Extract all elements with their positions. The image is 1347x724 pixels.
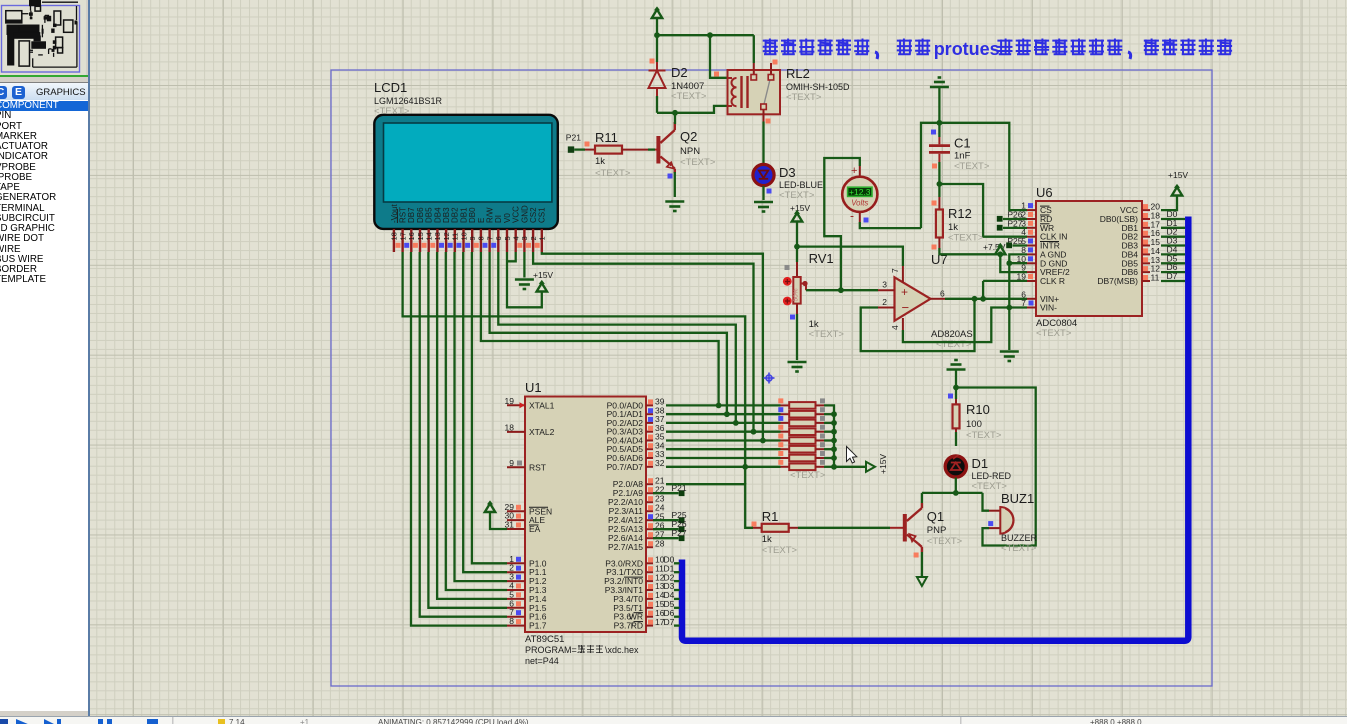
transistor Q2 NPN xyxy=(655,122,675,173)
pin 7 VIN- of U6 xyxy=(1027,307,1036,309)
pin 21 P2.0/A8 of U1 xyxy=(646,483,653,485)
svg-text:D1: D1 xyxy=(972,456,989,471)
svg-text:<TEXT>: <TEXT> xyxy=(762,545,798,556)
junction P0.4/CS1 drop xyxy=(760,438,766,444)
svg-text:13: 13 xyxy=(433,232,442,240)
junction P0.1/RW drop xyxy=(724,411,730,417)
svg-text:DB5: DB5 xyxy=(425,207,434,223)
ground below U6 xyxy=(1000,352,1019,362)
marker voltmeter minus xyxy=(864,218,869,223)
junction CLK R on output net xyxy=(980,296,986,302)
pin 38 P0.1/AD1 of U1 xyxy=(646,413,653,415)
wire Q2 emitter to ground xyxy=(674,172,676,197)
wire pack element 2 to common xyxy=(824,413,834,415)
svg-text:<TEXT>: <TEXT> xyxy=(790,470,826,481)
svg-text:12: 12 xyxy=(442,232,451,240)
wire U6 DB0(LSB) to data bus D0 xyxy=(1161,218,1185,220)
pin 3 P1.2 of U1 xyxy=(507,580,525,582)
pause button icon xyxy=(98,719,112,724)
pin 8 P1.7 of U1 xyxy=(507,625,525,627)
svg-text:D2: D2 xyxy=(671,65,688,80)
pane divider xyxy=(88,0,90,717)
junction R12 top node xyxy=(937,181,943,187)
wire down to Q1 collector xyxy=(921,493,923,503)
wire LCD DI to P0.2 xyxy=(498,252,736,423)
pin 3 WR of U6 xyxy=(1027,227,1036,229)
svg-text:R11: R11 xyxy=(595,130,618,145)
svg-text:\xdc.hex: \xdc.hex xyxy=(605,645,639,655)
wire pack element 3 to common xyxy=(824,422,834,424)
svg-text:VCC: VCC xyxy=(512,206,521,223)
wire U1 P0.2 row to resistor pack xyxy=(666,422,781,424)
svg-text:19: 19 xyxy=(505,396,515,406)
pin 34 P0.5/AD5 of U1 xyxy=(646,448,653,450)
svg-text:PNP: PNP xyxy=(927,525,947,536)
svg-text:<TEXT>: <TEXT> xyxy=(936,339,972,350)
LCD LCD1 LGM12641BS1R xyxy=(374,115,558,229)
ground below RV1 xyxy=(788,362,807,372)
svg-text:+1: +1 xyxy=(300,718,310,724)
pin 14 DB4 of U6 xyxy=(1142,253,1150,255)
pin 25 P2.4/A12 of U1 xyxy=(646,519,653,521)
pin 37 P0.2/AD2 of U1 xyxy=(646,422,653,424)
junction Q2 collector node xyxy=(672,110,678,116)
LED D1 LED-RED xyxy=(945,456,966,477)
terminal dot P26 xyxy=(997,216,1003,222)
marker buzzer xyxy=(988,521,993,526)
pin 32 P0.7/AD7 of U1 xyxy=(646,466,653,468)
wire supply to op-amp pin 7 xyxy=(797,247,903,266)
marker relay coil xyxy=(714,72,719,77)
buzzer BUZ1 xyxy=(989,507,1014,534)
power +15V arrow top xyxy=(652,6,662,18)
svg-text:D7: D7 xyxy=(664,617,675,627)
wire Q1 collector node xyxy=(922,492,983,494)
pin 13 P3.3/INT1 of U1 xyxy=(646,589,653,591)
pin 17 DB1 of U6 xyxy=(1142,227,1150,229)
marker RV1 top xyxy=(785,265,790,270)
svg-text:100: 100 xyxy=(966,419,982,430)
wire LCD DB3 to U1 P1.3 xyxy=(446,252,507,590)
power +15V arrow LCD xyxy=(537,280,547,292)
terminal dot P27 xyxy=(997,225,1003,231)
svg-text:<TEXT>: <TEXT> xyxy=(966,430,1002,441)
svg-text:6: 6 xyxy=(940,289,945,299)
pin 12 DB6 of U6 xyxy=(1142,271,1150,273)
svg-text:U1: U1 xyxy=(525,380,542,395)
svg-text:7: 7 xyxy=(485,236,494,240)
junction P0.2/E drop xyxy=(733,420,739,426)
LED D3 LED-BLUE xyxy=(753,164,774,185)
wire U1 P3.1/TXD to bus D1 xyxy=(674,571,680,573)
wire C1 node to U6 CS pin 1 xyxy=(939,123,1027,210)
pin 6 VIN+ of U6 xyxy=(1027,298,1036,300)
pin 28 P2.7/A15 of U1 xyxy=(646,546,653,548)
pin 19 XTAL1 of U1 xyxy=(507,404,525,406)
wire U1 P3.7/RD to bus D7 xyxy=(674,624,680,626)
wire U1 P3.5/T1 to bus D5 xyxy=(674,607,680,609)
svg-text:<TEXT>: <TEXT> xyxy=(595,168,631,179)
wire U1 P0.1 row to resistor pack xyxy=(666,413,781,415)
svg-text:+15V: +15V xyxy=(533,270,553,280)
wire U6 CLK R xyxy=(983,280,1027,282)
svg-text:RL2: RL2 xyxy=(786,66,810,81)
svg-text:LCD1: LCD1 xyxy=(374,80,407,95)
power arrow down below Q1 xyxy=(917,573,927,586)
wire R1 to Q1 base xyxy=(798,527,890,529)
wire P25 to U6 INTR xyxy=(1012,244,1027,246)
svg-text:<TEXT>: <TEXT> xyxy=(786,92,822,103)
wire U1 P0.4 row to resistor pack xyxy=(666,439,781,441)
resistor pack element 2 xyxy=(781,413,790,415)
junction D1/Q1/buzzer node xyxy=(953,490,959,496)
svg-text:C1: C1 xyxy=(954,136,971,151)
pin 39 P0.0/AD0 of U1 xyxy=(646,404,653,406)
pin 11 DB7(MSB) of U6 xyxy=(1142,280,1150,282)
pin 10 D GND of U6 xyxy=(1027,262,1036,264)
wire LCD DB4 to U1 P1.4 xyxy=(437,252,507,599)
marker R12 top xyxy=(932,201,937,206)
marker C1 top xyxy=(931,130,936,135)
wire voltmeter + to RV1 wiper node xyxy=(824,158,860,290)
marker Q2 emitter xyxy=(668,174,673,179)
ground above C1 (inverted) xyxy=(930,78,949,88)
wire U1 P3.4/T0 to bus D4 xyxy=(674,598,680,600)
svg-text:15: 15 xyxy=(416,232,425,240)
wire +15V arrow to D2 cathode xyxy=(656,18,658,62)
svg-text:<TEXT>: <TEXT> xyxy=(671,91,707,102)
svg-text:DB7: DB7 xyxy=(407,207,416,223)
wire RV1 wiper to op-amp pin 3 xyxy=(806,289,878,291)
wire resistor pack commons to +15V xyxy=(824,405,866,466)
wire LCD GND to ground xyxy=(523,252,525,278)
wire R12 node to U6 CLK IN xyxy=(939,184,1027,237)
marker Q1 emitter xyxy=(914,553,919,558)
pin 4 P1.3 of U1 xyxy=(507,589,525,591)
wire P26 to U6 RD xyxy=(1003,218,1027,220)
wire U1 P0.3 row to resistor pack xyxy=(666,431,781,433)
pin 9 VREF/2 of U6 xyxy=(1027,271,1036,273)
svg-text:17: 17 xyxy=(398,232,407,240)
annotation text (Chinese note) xyxy=(763,39,778,55)
pin 2 P1.1 of U1 xyxy=(507,571,525,573)
svg-text:P2.7/A15: P2.7/A15 xyxy=(608,542,643,552)
svg-text:net=P44: net=P44 xyxy=(525,656,559,666)
pin 12 P3.2/INT0 of U1 xyxy=(646,580,653,582)
wire supply rail to relay xyxy=(657,34,754,36)
svg-text:LED-BLUE: LED-BLUE xyxy=(779,180,823,190)
wire LCD RST to P0.7 xyxy=(403,252,746,467)
pin 36 P0.3/AD3 of U1 xyxy=(646,431,653,433)
svg-text:DI: DI xyxy=(494,215,503,223)
graphics header with C and E buttons xyxy=(0,82,88,101)
svg-text:1k: 1k xyxy=(948,222,958,233)
pin 15 P3.5/T1 of U1 xyxy=(646,607,653,609)
svg-text:1: 1 xyxy=(538,236,547,240)
wire U1 P0.7 row to resistor pack xyxy=(666,466,781,468)
resistor pack element 8 xyxy=(781,466,790,468)
resistor R1 1k xyxy=(752,527,762,529)
step button icon xyxy=(44,719,61,724)
svg-text:D3: D3 xyxy=(779,165,796,180)
green separator line xyxy=(0,75,88,77)
wire U6 DB1 to data bus D1 xyxy=(1161,227,1185,229)
wire VREF node to U6 VREF/2 xyxy=(1000,254,1027,272)
wire LCD E to P0.0 xyxy=(481,252,719,405)
wire relay pole to D3 xyxy=(762,122,764,167)
pin 9 RST of U1 xyxy=(507,466,525,468)
wire LCD DB0 to U1 P1.0 xyxy=(472,252,507,563)
svg-text:+15V: +15V xyxy=(878,454,888,474)
svg-text:R/W: R/W xyxy=(486,207,495,223)
svg-text:GND: GND xyxy=(520,205,529,223)
svg-text:-Vout: -Vout xyxy=(390,204,399,223)
svg-text:+: + xyxy=(901,285,908,299)
pin 20 VCC of U6 xyxy=(1142,209,1150,211)
pin 31 EA of U1 xyxy=(507,528,525,530)
wire pack element 4 to common xyxy=(824,431,834,433)
ground below LCD xyxy=(515,280,534,290)
wire pack element 7 to common xyxy=(824,457,834,459)
wire R12 bottom to VREF node xyxy=(939,248,1000,254)
svg-text:P1.7: P1.7 xyxy=(529,621,547,631)
pin 17 P3.7/RD of U1 xyxy=(646,625,653,627)
potentiometer RV1 1k xyxy=(783,262,808,314)
svg-text:+888.0 +888.0: +888.0 +888.0 xyxy=(1090,718,1142,724)
resistor R11 1k xyxy=(585,149,595,151)
svg-text:VIN-: VIN- xyxy=(1040,303,1057,313)
wire to U6 D GND xyxy=(1009,262,1027,264)
marker R11 left xyxy=(585,142,590,147)
junction wiper node xyxy=(838,287,844,293)
pin 22 P2.1/A9 of U1 xyxy=(646,492,653,494)
wire U1 P0.0 row to resistor pack xyxy=(666,404,781,406)
svg-text:32: 32 xyxy=(655,458,665,468)
svg-text:4: 4 xyxy=(890,325,900,330)
wire R10 node to buzzer pin 2 xyxy=(956,388,1036,546)
junction VREF node xyxy=(997,251,1003,257)
wire LCD VCC jog xyxy=(507,252,516,261)
wire LCD DB1 to U1 P1.1 xyxy=(463,252,507,572)
svg-text:R1: R1 xyxy=(762,509,779,524)
svg-text:Volts: Volts xyxy=(851,199,868,208)
svg-text:<TEXT>: <TEXT> xyxy=(779,190,815,201)
junction D GND branch xyxy=(1006,260,1012,266)
wire LCD CS2 to P0.3 xyxy=(533,252,753,432)
junction relay coil branch xyxy=(707,32,713,38)
pin 14 P3.4/T0 of U1 xyxy=(646,598,653,600)
pin 2 RD of U6 xyxy=(1027,218,1036,220)
marker R10 top xyxy=(948,394,953,399)
svg-text:AT89C51: AT89C51 xyxy=(525,634,564,645)
wire feedback op-amp output to pin 2 xyxy=(861,299,975,351)
pin 15 DB3 of U6 xyxy=(1142,245,1150,247)
wire voltmeter - to C1 left leg xyxy=(860,222,921,228)
power arrow at U1 EA xyxy=(485,500,495,512)
resistor pack element 1 xyxy=(781,404,790,406)
play button icon xyxy=(16,719,29,724)
pin 26 P2.5/A13 of U1 xyxy=(646,528,653,530)
sidebar panel xyxy=(0,0,88,717)
svg-text:8: 8 xyxy=(477,236,486,240)
junction P0.7/RST drop xyxy=(742,464,748,470)
junction P0.3/CS2 drop xyxy=(751,429,757,435)
ground above R10 (inverted) xyxy=(947,360,966,370)
wire U1 P3.2/INT0 to bus D2 xyxy=(674,580,680,582)
svg-text:+12.3: +12.3 xyxy=(849,187,871,197)
marker C1 bottom xyxy=(932,164,937,169)
svg-text:6: 6 xyxy=(494,236,503,240)
capacitor C1 1nF xyxy=(929,137,950,162)
op-amp U7 AD820AS xyxy=(878,266,945,330)
svg-text:Q2: Q2 xyxy=(680,129,697,144)
svg-text:<TEXT>: <TEXT> xyxy=(374,106,410,117)
wire U1 P3.3/INT1 to bus D3 xyxy=(674,589,680,591)
status bar (mostly cut off) xyxy=(0,716,1347,724)
svg-text:2: 2 xyxy=(529,236,538,240)
thumbnail drawing xyxy=(6,0,78,67)
resistor pack element 5 xyxy=(781,440,790,442)
marker U6 VIN- xyxy=(1029,301,1034,306)
svg-text:+15V: +15V xyxy=(790,203,810,213)
svg-text:+: + xyxy=(851,165,857,177)
wire LCD DB2 to U1 P1.2 xyxy=(455,252,508,581)
wire to relay switch common pin xyxy=(753,35,755,63)
svg-text:<TEXT>: <TEXT> xyxy=(680,157,716,168)
resistor pack element 3 xyxy=(781,422,790,424)
pin 5 INTR of U6 xyxy=(1027,245,1036,247)
junction R10 top node xyxy=(953,385,959,391)
wire ground to C1 top xyxy=(938,87,940,137)
wire power arrow to EA xyxy=(490,512,507,529)
marker R1 left xyxy=(752,522,757,527)
junction P0.0/DI drop xyxy=(716,403,722,409)
marker relay NC pin xyxy=(773,60,778,65)
svg-text:DB7(MSB): DB7(MSB) xyxy=(1097,276,1138,286)
svg-text:P27: P27 xyxy=(672,528,687,538)
svg-text:11: 11 xyxy=(1151,273,1160,283)
origin marker crosshair xyxy=(764,373,775,384)
wire CLK R to output node xyxy=(982,281,984,299)
pin 1 P1.0 of U1 xyxy=(507,562,525,564)
wire LCD DB7 to U1 P1.7 xyxy=(411,252,507,626)
marker D2 cathode xyxy=(650,59,655,64)
wire U1 P3.0/RXD to bus D0 xyxy=(674,562,680,564)
wire op-amp output to U6 VIN+ xyxy=(945,298,1027,300)
svg-text:P0.7/AD7: P0.7/AD7 xyxy=(607,462,644,472)
svg-text:<TEXT>: <TEXT> xyxy=(1036,328,1072,339)
marker R12 bottom xyxy=(932,245,937,250)
svg-text:PROGRAM=..\: PROGRAM=..\ xyxy=(525,645,585,655)
wire Q1 emitter down xyxy=(921,552,923,577)
pin 7 P1.6 of U1 xyxy=(507,616,525,618)
svg-text:9: 9 xyxy=(509,458,514,468)
svg-text:10: 10 xyxy=(459,232,468,240)
svg-text:−: − xyxy=(902,300,910,315)
terminal dot P25 xyxy=(1006,242,1012,248)
wire P21 to R11 xyxy=(574,148,585,150)
svg-text:18: 18 xyxy=(390,232,399,240)
svg-text:-: - xyxy=(850,209,854,223)
wire pack element 8 to common xyxy=(824,466,834,468)
wire pack element 5 to common xyxy=(824,439,834,441)
diode D2 1N4007 xyxy=(649,62,666,97)
wire U6 A GND down to ground xyxy=(1009,254,1027,350)
svg-text:ANIMATING: 0.857142999 (CPU lo: ANIMATING: 0.857142999 (CPU load 4%) xyxy=(378,718,529,724)
svg-text:RST: RST xyxy=(399,207,408,223)
wire op-amp pin4 to U6 VIN- xyxy=(903,308,1027,343)
schematic sheet border xyxy=(331,70,1212,686)
svg-text:7.14...: 7.14... xyxy=(229,718,251,724)
wire U6 DB5 to data bus D5 xyxy=(1161,262,1185,264)
terminal P27 at U1 xyxy=(653,537,679,539)
wire ground to R10 xyxy=(955,370,957,400)
pin 33 P0.6/AD6 of U1 xyxy=(646,457,653,459)
svg-text:14: 14 xyxy=(425,232,434,240)
svg-text:<TEXT>: <TEXT> xyxy=(954,161,990,172)
wire U6 DB7(MSB) to data bus D7 xyxy=(1161,280,1185,282)
svg-text:R12: R12 xyxy=(948,206,972,221)
pin 4 CLK IN of U6 xyxy=(1027,236,1036,238)
wire LCD DB5 to U1 P1.5 xyxy=(428,252,507,608)
svg-text:5: 5 xyxy=(503,236,512,240)
svg-text:16: 16 xyxy=(407,232,416,240)
svg-text:1nF: 1nF xyxy=(954,151,971,162)
pin 13 DB5 of U6 xyxy=(1142,262,1150,264)
junction node D2/relay supply xyxy=(654,32,660,38)
wire U1 P3.6/WR to bus D6 xyxy=(674,616,680,618)
junction VIN- ground branch xyxy=(1006,305,1012,311)
svg-text:LED-RED: LED-RED xyxy=(972,471,1012,481)
svg-text:CS1: CS1 xyxy=(538,207,547,223)
svg-text:<TEXT>: <TEXT> xyxy=(927,536,963,547)
wire LCD R/W to P0.1 xyxy=(490,252,727,414)
svg-text:2: 2 xyxy=(882,297,887,307)
pin 6 P1.5 of U1 xyxy=(507,607,525,609)
svg-text:BUZ1: BUZ1 xyxy=(1001,491,1034,506)
svg-text:LGM12641BS1R: LGM12641BS1R xyxy=(374,96,443,106)
svg-text:DB3: DB3 xyxy=(442,207,451,223)
wire +15V to U6 VCC xyxy=(1161,196,1177,211)
wire D3 to ground xyxy=(762,186,764,200)
svg-text:7: 7 xyxy=(890,268,900,273)
pin 16 DB2 of U6 xyxy=(1142,236,1150,238)
wire R10 to D1 xyxy=(955,432,957,446)
junction C1 top node xyxy=(937,120,943,126)
terminal P26 at U1 xyxy=(653,528,679,530)
resistor R10 100 xyxy=(955,399,957,404)
wire RV1 bottom to ground xyxy=(796,314,798,360)
pin 18 DB0(LSB) of U6 xyxy=(1142,218,1150,220)
svg-text:<TEXT>: <TEXT> xyxy=(809,329,845,340)
svg-text:Q1: Q1 xyxy=(927,509,944,524)
svg-text:9: 9 xyxy=(468,236,477,240)
wire pack element 6 to common xyxy=(824,448,834,450)
wire C1 node to voltmeter minus leg xyxy=(921,123,939,228)
marker relay pole xyxy=(766,119,771,124)
svg-text:CS2: CS2 xyxy=(529,207,538,223)
svg-text:18: 18 xyxy=(505,422,515,432)
pin 35 P0.4/AD4 of U1 xyxy=(646,440,653,442)
ground below Q2 xyxy=(665,202,684,212)
marker RV1 bottom xyxy=(790,315,795,320)
svg-text:NPN: NPN xyxy=(680,146,700,157)
terminal P21 input xyxy=(568,146,574,152)
svg-text:BUZZER: BUZZER xyxy=(1001,533,1038,543)
svg-text:<TEXT>: <TEXT> xyxy=(1001,543,1037,554)
wire D2 anode down xyxy=(656,96,658,113)
terminal P21 at U1 xyxy=(653,492,679,494)
